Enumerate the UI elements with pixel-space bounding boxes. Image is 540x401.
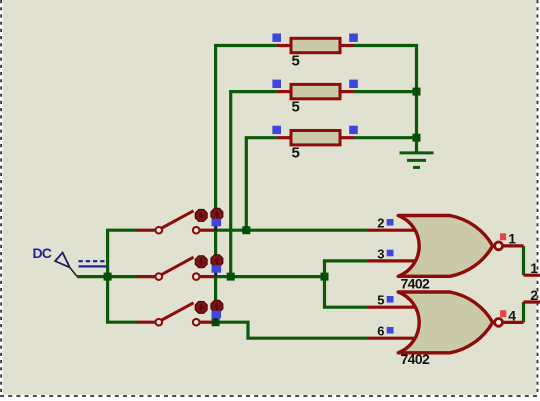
U1 output pin 1 stub bbox=[503, 244, 523, 247]
wire DC generator feed bbox=[77, 275, 108, 278]
svg-text:2: 2 bbox=[377, 216, 384, 231]
U1 output bubble bbox=[495, 242, 503, 250]
svg-text:1: 1 bbox=[530, 260, 538, 276]
wire R2 right segment bbox=[354, 90, 417, 93]
bottom margin strip bbox=[0, 395, 540, 401]
switch SW3 left terminal bbox=[156, 319, 163, 326]
junction switch2 row / R2 net bbox=[227, 273, 235, 281]
svg-text:3: 3 bbox=[377, 246, 384, 261]
junction R2 right rail bbox=[413, 88, 421, 96]
resistor R3 left pin state square bbox=[272, 126, 281, 134]
wire net SW1/R3 vertical with R3 left segment bbox=[246, 138, 276, 231]
svg-text:4: 4 bbox=[508, 307, 516, 323]
resistor R3 left lead bbox=[277, 136, 291, 139]
wire switch2 row to branch node bbox=[214, 275, 325, 278]
switch SW1 state square bbox=[212, 219, 222, 226]
svg-text:5: 5 bbox=[292, 52, 300, 69]
switch SW3 lever bbox=[162, 303, 194, 320]
switch SW3 down actuator button bbox=[195, 301, 207, 313]
switch SW2 down actuator button bbox=[195, 256, 207, 268]
switch SW3 left pin bbox=[137, 321, 156, 324]
svg-text:5: 5 bbox=[292, 98, 300, 115]
svg-text:7402: 7402 bbox=[401, 276, 431, 292]
resistor R1 left pin state square bbox=[272, 34, 281, 42]
resistor R2 left lead bbox=[277, 90, 291, 93]
svg-text:5: 5 bbox=[377, 293, 384, 308]
resistor R2 right pin state square bbox=[349, 80, 358, 88]
U1 pin 3 stub bbox=[368, 259, 417, 262]
resistor R1 right lead bbox=[340, 44, 354, 47]
left dashed border bbox=[0, 0, 2, 401]
switch SW3 right pin bbox=[200, 321, 215, 324]
svg-text:2: 2 bbox=[530, 287, 538, 303]
switch SW2 state square bbox=[212, 265, 222, 272]
wire switch3 row to U2 pin 6 bbox=[216, 322, 368, 338]
junction switch1 row / R3 net bbox=[242, 226, 250, 234]
switch SW2 lever bbox=[162, 257, 194, 274]
wire U2 output vertical bbox=[522, 302, 525, 322]
svg-text:6: 6 bbox=[377, 324, 384, 339]
resistor R1 body bbox=[291, 38, 340, 52]
wire net SW3/R1 vertical with R1 left segment bbox=[216, 46, 277, 323]
wire left bus stub row 2 bbox=[108, 275, 137, 278]
switch SW1 right pin bbox=[200, 229, 215, 232]
DC generator leader line bbox=[70, 267, 77, 276]
switch SW2 right pin bbox=[200, 275, 215, 278]
resistor R3 body bbox=[291, 131, 340, 145]
switch SW1 left terminal bbox=[156, 227, 163, 234]
U pin 2 state square bbox=[387, 219, 394, 226]
resistor R2 left pin state square bbox=[272, 80, 281, 88]
wire R1 right to ground rail bbox=[354, 46, 417, 153]
junction branch node pins 3-5 bbox=[321, 273, 329, 281]
U2 output pin 4 stub bbox=[503, 321, 523, 324]
switch SW1 up actuator button bbox=[211, 208, 223, 220]
op-amp U1 NOR gate 7402 body bbox=[398, 216, 493, 277]
resistor R3 right pin state square bbox=[349, 126, 358, 134]
resistor R1 right pin state square bbox=[349, 34, 358, 42]
switch SW2 state stub bbox=[215, 272, 217, 277]
op-amp U2 NOR gate 7402 body bbox=[398, 292, 493, 353]
wire to right edge net 1 bbox=[524, 274, 540, 277]
switch SW3 up actuator button bbox=[211, 300, 223, 312]
wire net SW2/R2 vertical with R2 left segment bbox=[231, 92, 277, 277]
U pin 5 state square bbox=[387, 296, 394, 303]
switch SW1 left pin bbox=[137, 229, 156, 232]
wire R3 right segment bbox=[354, 136, 417, 139]
switch SW2 left terminal bbox=[156, 273, 163, 280]
switch SW3 right terminal bbox=[193, 319, 200, 326]
right margin strip bbox=[537, 0, 540, 401]
junction DC feed / left bus bbox=[104, 273, 112, 281]
ground symbol bbox=[400, 150, 434, 167]
switch SW2 right terminal bbox=[193, 273, 200, 280]
U2 output bubble bbox=[495, 319, 503, 327]
resistor R3 right lead bbox=[340, 136, 354, 139]
wire U1 output vertical bbox=[522, 246, 525, 275]
wire switch1 row to gate U1 pin 2 bbox=[214, 229, 368, 232]
U2 pin 6 stub bbox=[368, 337, 417, 340]
svg-text:5: 5 bbox=[292, 145, 300, 162]
switch SW2 left pin bbox=[137, 275, 156, 278]
U pin 6 state square bbox=[387, 327, 394, 334]
DC symbol dashed line bbox=[79, 260, 107, 262]
U1 pin 2 stub bbox=[368, 229, 417, 232]
U2 pin 5 stub bbox=[368, 306, 417, 309]
left margin strip bbox=[0, 0, 3, 401]
svg-text:1: 1 bbox=[508, 230, 516, 246]
right dashed border bbox=[537, 0, 539, 401]
svg-text:7402: 7402 bbox=[401, 351, 431, 367]
switch SW1 right terminal bbox=[193, 227, 200, 234]
bottom dashed border bbox=[0, 395, 540, 397]
resistor R2 right lead bbox=[340, 90, 354, 93]
junction R3 right rail at ground bbox=[413, 134, 421, 142]
U pin 3 state square bbox=[387, 250, 394, 257]
switch SW3 state square bbox=[212, 311, 222, 318]
resistor R2 body bbox=[291, 84, 340, 98]
junction switch3 row / R1 net bbox=[212, 318, 220, 326]
U2 pin 4 state square bbox=[500, 310, 506, 317]
wire branch to U1 pin 3 and U2 pin 5 bbox=[325, 261, 368, 307]
switch SW1 state stub bbox=[215, 225, 217, 230]
switch SW1 lever bbox=[162, 211, 194, 228]
wire to right edge net 2 bbox=[524, 300, 540, 303]
wire DC supply left bus bbox=[108, 230, 137, 322]
switch SW2 up actuator button bbox=[211, 255, 223, 267]
switch SW1 down actuator button bbox=[195, 209, 207, 221]
DC symbol solid line bbox=[79, 265, 107, 267]
U1 pin 1 state square bbox=[500, 233, 506, 240]
DC generator flag triangle bbox=[55, 253, 70, 268]
svg-text:DC: DC bbox=[33, 245, 52, 261]
resistor R1 left lead bbox=[277, 44, 291, 47]
switch SW3 state stub bbox=[215, 317, 217, 322]
